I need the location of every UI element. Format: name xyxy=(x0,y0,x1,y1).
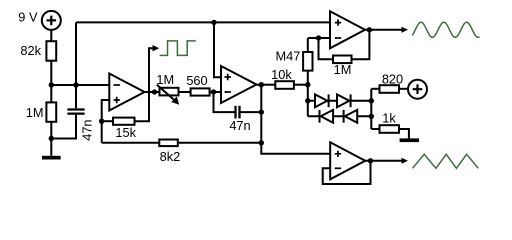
svg-text:8k2: 8k2 xyxy=(160,149,181,164)
svg-text:820: 820 xyxy=(382,71,403,86)
svg-text:560: 560 xyxy=(186,73,207,88)
svg-text:1M: 1M xyxy=(156,72,174,87)
svg-text:1M: 1M xyxy=(26,105,44,120)
svg-text:82k: 82k xyxy=(20,43,41,58)
svg-text:1M: 1M xyxy=(334,62,352,77)
svg-text:1k: 1k xyxy=(382,110,396,125)
svg-text:M47: M47 xyxy=(275,48,300,63)
svg-text:47n: 47n xyxy=(229,118,250,133)
svg-text:15k: 15k xyxy=(115,125,136,140)
svg-text:10k: 10k xyxy=(271,67,292,82)
svg-text:47n: 47n xyxy=(79,119,94,140)
svg-text:9 V: 9 V xyxy=(18,9,38,24)
